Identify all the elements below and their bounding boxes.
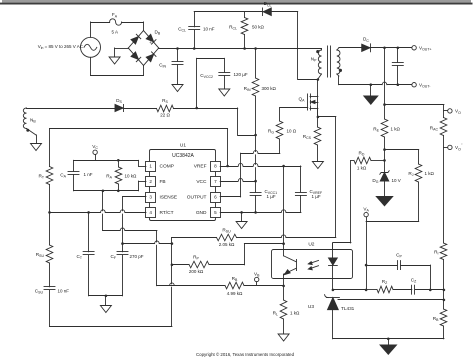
capacitor CSU 10nF xyxy=(35,287,70,327)
svg-text:10 Ω: 10 Ω xyxy=(287,129,297,134)
wire source to sense bus xyxy=(318,116,336,118)
node VO2 terminal xyxy=(444,143,463,152)
svg-text:4: 4 xyxy=(149,210,152,215)
svg-text:6: 6 xyxy=(214,195,217,200)
capacitor CCL 10nF xyxy=(178,12,215,49)
AC source Vin xyxy=(38,22,101,76)
resistor RE 1k xyxy=(373,119,400,173)
transformer secondary xyxy=(337,48,340,85)
wire secondary top to DC xyxy=(339,47,362,49)
svg-text:1: 1 xyxy=(149,164,152,169)
capacitor CT xyxy=(76,212,94,295)
bridge rectifier DB xyxy=(128,30,161,66)
svg-text:VREF: VREF xyxy=(194,164,207,170)
svg-text:1 µF: 1 µF xyxy=(312,194,321,199)
svg-text:RT/CT: RT/CT xyxy=(160,210,174,216)
zener DG 10V xyxy=(372,171,400,196)
node NB polarity dot xyxy=(26,129,29,132)
wire source node xyxy=(317,108,319,127)
node VB terminal xyxy=(254,271,260,285)
svg-text:1 kΩ: 1 kΩ xyxy=(425,171,435,176)
resistor RT xyxy=(38,129,52,213)
svg-text:200 kΩ: 200 kΩ xyxy=(189,269,204,274)
svg-text:GND: GND xyxy=(196,210,207,216)
wire VCC net xyxy=(174,108,238,110)
svg-text:2.05 kΩ: 2.05 kΩ xyxy=(219,242,235,247)
resistor RBP bottom-left xyxy=(36,212,53,286)
svg-text:1 nF: 1 nF xyxy=(84,172,93,177)
wire CT CF to ground xyxy=(89,295,123,297)
svg-text:VCC: VCC xyxy=(196,179,207,185)
ground output return xyxy=(363,85,379,105)
wire FB jog down to RB xyxy=(102,191,104,231)
wire DC rail xyxy=(159,48,322,50)
svg-text:TL431: TL431 xyxy=(341,306,355,311)
wire VOUT+ sense down xyxy=(384,48,386,119)
svg-text:4.99 kΩ: 4.99 kΩ xyxy=(227,291,243,296)
svg-text:+: + xyxy=(149,40,152,45)
resistor RL 1k xyxy=(273,286,300,334)
capacitor CF 270pF xyxy=(110,244,143,296)
svg-text:10 nF: 10 nF xyxy=(58,289,70,294)
diode DCL xyxy=(263,1,272,15)
svg-text:10 nF: 10 nF xyxy=(203,26,215,31)
resistor RB 4.99k xyxy=(157,276,284,296)
resistor RP 200k xyxy=(172,244,284,275)
ground at bridge xyxy=(109,48,128,64)
wire TL431 ref xyxy=(338,299,444,301)
wire COMP xyxy=(74,160,139,162)
wire GND pin5 xyxy=(220,212,301,214)
ground at zener xyxy=(375,196,394,207)
svg-text:1 kΩ: 1 kΩ xyxy=(357,166,367,171)
node VOUT- terminal xyxy=(412,82,431,88)
resistor RI xyxy=(434,147,447,309)
wire FB xyxy=(74,190,139,192)
node secondary polarity dot xyxy=(339,69,342,72)
diode DC xyxy=(362,37,371,52)
svg-text:10 V: 10 V xyxy=(392,178,401,183)
top toolbar bar xyxy=(2,0,471,3)
opto U2 box xyxy=(272,242,353,279)
svg-text:FB: FB xyxy=(160,179,166,185)
wire VREF loop xyxy=(50,128,228,130)
ground at NB xyxy=(27,129,42,151)
wire fuse to bridge xyxy=(122,22,144,24)
wire to VO RAC xyxy=(385,104,444,106)
transistor opto phototransistor xyxy=(284,244,297,286)
capacitor CVCC2 120uF xyxy=(197,58,248,108)
transformer core xyxy=(327,46,329,77)
wire AC top to fuse xyxy=(91,22,110,24)
wire VA node xyxy=(366,221,419,223)
capacitor CP xyxy=(366,253,430,290)
resistor RD 1k opto series xyxy=(333,151,385,250)
node primary polarity dot xyxy=(316,50,319,53)
wire VOUT- xyxy=(339,84,412,86)
resistor RAC xyxy=(430,111,447,147)
wire DS to RS xyxy=(123,108,156,110)
ground at CT/CF xyxy=(100,296,111,313)
resistor RCS xyxy=(303,127,321,162)
svg-text:Copyright © 2016, Texas Instru: Copyright © 2016, Texas Instruments Inco… xyxy=(196,352,295,357)
node VA terminal xyxy=(363,206,369,221)
resistor RB2 lower divider xyxy=(433,309,447,339)
node VO terminal xyxy=(448,109,461,115)
ground at RCS xyxy=(312,162,323,169)
svg-text:10 kΩ: 10 kΩ xyxy=(125,174,138,179)
resistor RS 22ohm xyxy=(157,98,174,118)
wire ISENSE vertical bus xyxy=(171,238,173,327)
opto light arrows xyxy=(308,261,318,270)
wire clamp to drain node xyxy=(271,11,297,13)
wire to VOUT+ xyxy=(370,47,412,49)
svg-text:U3: U3 xyxy=(308,304,314,310)
wire VCC pin7 xyxy=(220,181,255,183)
wire VREF pin8 xyxy=(220,166,301,168)
svg-text:50 kΩ: 50 kΩ xyxy=(252,25,265,30)
transformer primary NP xyxy=(311,49,322,80)
wire clamp top xyxy=(194,11,263,13)
svg-text:7: 7 xyxy=(214,179,217,184)
svg-text:22 Ω: 22 Ω xyxy=(160,113,170,118)
wire ISENSE node horizontal xyxy=(123,243,172,245)
svg-text:5: 5 xyxy=(214,210,217,215)
resistor RIN 300k xyxy=(244,49,277,136)
svg-text:COMP: COMP xyxy=(160,164,174,170)
wire NB to DS xyxy=(27,108,116,110)
wire RT/CT pin4 xyxy=(50,212,146,214)
svg-text:ISENSE: ISENSE xyxy=(160,195,178,201)
capacitor CVREF 1uF xyxy=(295,166,322,212)
wire TL431 cathode node xyxy=(333,289,366,291)
capacitor CIN xyxy=(159,49,183,92)
svg-text:OUTPUT: OUTPUT xyxy=(187,195,207,201)
svg-text:U1: U1 xyxy=(180,142,186,148)
fuse FA 5A xyxy=(110,12,122,34)
transistor QA mosfet xyxy=(299,94,318,117)
svg-text:2: 2 xyxy=(149,179,152,184)
svg-text:270 pF: 270 pF xyxy=(130,254,144,259)
svg-text:': ' xyxy=(462,143,463,148)
diode DS xyxy=(115,98,124,112)
svg-text:3: 3 xyxy=(149,195,152,200)
ground secondary at bottom xyxy=(379,339,398,355)
wire gate xyxy=(280,107,308,109)
wire opto collector to VREF xyxy=(283,166,285,244)
svg-text:300 kΩ: 300 kΩ xyxy=(262,86,277,91)
op-amp U1 UC3842A xyxy=(146,142,221,220)
wire drain xyxy=(317,79,319,96)
wire ISENSE pin3 xyxy=(123,196,146,198)
ground at RL xyxy=(278,334,289,341)
svg-text:120 µF: 120 µF xyxy=(234,72,248,77)
svg-text:5 A: 5 A xyxy=(112,30,119,35)
capacitor CA 1nF xyxy=(60,160,92,191)
transistor U3 TL431 xyxy=(308,295,355,339)
node VC terminal xyxy=(92,144,98,161)
svg-text:8: 8 xyxy=(214,164,217,169)
wire AC bottom to bridge xyxy=(91,75,144,77)
resistor RG 10ohm xyxy=(268,108,297,154)
inductor NB xyxy=(23,108,36,128)
svg-text:U2: U2 xyxy=(308,242,314,248)
svg-text:1 kΩ: 1 kΩ xyxy=(290,311,300,316)
ground at GND pin xyxy=(236,212,247,228)
resistor RCL 50k xyxy=(229,12,264,49)
resistor RSU 2.05k xyxy=(172,228,336,248)
capacitor COUT xyxy=(392,48,403,85)
node VOUT+ terminal xyxy=(412,46,432,52)
capacitor CVCC1 1uF xyxy=(250,181,277,212)
wire OUTPUT pin6 to RG xyxy=(220,196,240,198)
wire bottom return xyxy=(50,326,172,328)
svg-text:UC3842A: UC3842A xyxy=(172,153,194,159)
svg-text:1 µF: 1 µF xyxy=(267,194,276,199)
wire TL431 anode bottom xyxy=(333,338,444,340)
resistor RJ 1k xyxy=(385,150,435,222)
resistor RA 10k xyxy=(106,160,137,191)
diode opto LED xyxy=(329,243,338,290)
resistor RZ + capacitor CZ xyxy=(366,278,444,295)
svg-text:1 kΩ: 1 kΩ xyxy=(391,127,401,132)
